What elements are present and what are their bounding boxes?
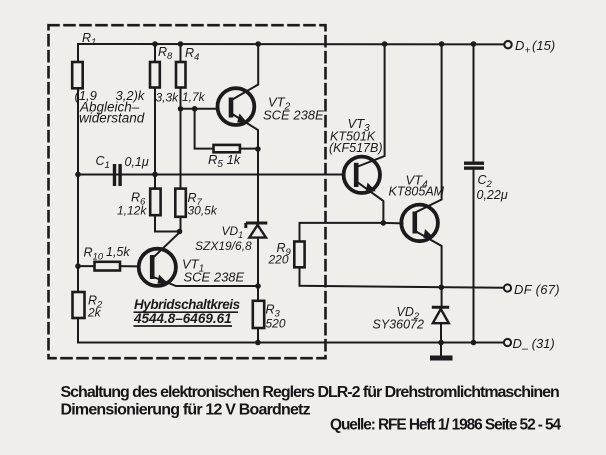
svg-text:1,7k: 1,7k <box>182 90 206 104</box>
resistor R1 <box>72 31 146 126</box>
svg-text:KT805AM: KT805AM <box>389 185 445 199</box>
svg-text:1,5k: 1,5k <box>106 245 130 259</box>
svg-text:SY36072: SY36072 <box>373 318 424 332</box>
svg-text:(KF517B): (KF517B) <box>329 141 383 155</box>
zener diode VD1 <box>195 223 267 253</box>
wire: left rail (R1/R2 column) <box>77 44 79 343</box>
svg-text:0,22μ: 0,22μ <box>477 188 508 202</box>
junction: R8/R6/C1 node <box>152 172 158 178</box>
svg-text:4544.8–6469.61: 4544.8–6469.61 <box>133 311 232 326</box>
svg-text:SCE 238E: SCE 238E <box>263 108 324 123</box>
wire: VT2 emitter down through R5 node to VD1 <box>232 114 259 224</box>
resistor R7 <box>175 189 218 218</box>
wire: R4/R7 column <box>180 44 182 232</box>
svg-text:Schaltung des elektronischen R: Schaltung des elektronischen Reglers DLR… <box>61 384 560 401</box>
resistor R5 <box>208 145 242 170</box>
wire: VD1 bottom to VT1 emitter node <box>257 238 259 343</box>
junction: C2 bottom on D- rail <box>471 340 477 346</box>
svg-text:Quelle: RFE Heft 1/ 1986 Seite: Quelle: RFE Heft 1/ 1986 Seite 52 - 54 <box>330 416 562 433</box>
wire: VT1 collector diagonal <box>152 232 180 259</box>
terminal D+ (15) <box>504 38 555 57</box>
svg-text:2k: 2k <box>87 306 102 320</box>
junction: R10 on left rail <box>75 263 81 269</box>
junction: R6/R7/VT1 collector node <box>177 229 183 235</box>
svg-text:520: 520 <box>266 317 286 331</box>
svg-text:SCE 238E: SCE 238E <box>184 270 245 285</box>
junction: R5 left on VT2 base <box>192 106 198 112</box>
junction: C2 top on D+ rail <box>471 41 477 47</box>
resistor R4 <box>176 46 206 104</box>
wire: feedback line C1 node to VT3 base <box>78 174 343 176</box>
transistor VT3 <box>329 116 383 193</box>
junction: VT3 collector on D+ rail <box>382 41 388 47</box>
transistor VT4 <box>389 173 445 242</box>
transistor VT2 <box>218 88 325 125</box>
diode VD2 <box>373 305 450 332</box>
wire: C2 column <box>473 44 475 162</box>
svg-text:Dimensionierung für 12 V Board: Dimensionierung für 12 V Boardnetz <box>61 401 311 418</box>
wire: R5 left lead from base node <box>195 109 214 149</box>
svg-text:Hybridschaltkreis: Hybridschaltkreis <box>134 297 241 312</box>
svg-text:DF (67): DF (67) <box>514 282 560 297</box>
wire: VT3 collector to top rail <box>357 44 385 167</box>
wire: R9 top lead to VT4 base node <box>300 223 384 242</box>
junction: R5 right / VT2 emitter node <box>255 146 261 152</box>
wire: R9 bottom lead to DF line <box>300 267 504 288</box>
junction: VT4 emitter / VD2 on DF line <box>439 285 445 291</box>
terminal D- (31) <box>504 336 555 355</box>
ground <box>430 356 453 361</box>
resistor R9 <box>268 241 305 267</box>
wire: VT2 base wire <box>181 108 218 110</box>
wire: VT2 collector to top rail <box>232 44 259 100</box>
resistor R3 <box>253 301 286 331</box>
ground stem <box>440 343 442 356</box>
capacitor C1 <box>96 154 149 186</box>
wire: VD2 bottom to D- rail <box>440 324 442 343</box>
wire: VT4 emitter down to DF node <box>415 231 441 307</box>
hybrid module dashed boundary box <box>49 25 326 358</box>
svg-text:widerstand: widerstand <box>79 111 145 126</box>
svg-text:SZX19/6,8: SZX19/6,8 <box>195 239 252 253</box>
wire: R8/R6 column <box>154 44 156 216</box>
transistor VT1 <box>139 249 245 286</box>
junction: R4 top on D+ rail <box>178 41 184 47</box>
junction: VT1 emitter / VD1 / R3 node <box>255 283 261 289</box>
junction: R8 top on D+ rail <box>152 41 158 47</box>
wire: bottom rail to D- <box>78 342 504 344</box>
svg-text:30,5k: 30,5k <box>188 204 218 218</box>
wire: top supply rail to D+ <box>79 43 504 45</box>
resistor R10 <box>84 245 131 271</box>
terminal DF (67) <box>504 282 560 297</box>
junction: R4 bottom on VT2 base <box>178 106 184 112</box>
wire: VT3 emitter to VT4 base node <box>357 182 384 223</box>
junction: VD2 / ground on D- rail <box>438 340 444 346</box>
wire: R5 right lead to emitter column <box>240 148 258 150</box>
svg-text:0,1μ: 0,1μ <box>125 155 149 169</box>
svg-text:1,12k: 1,12k <box>117 204 147 218</box>
resistor R8 <box>150 45 179 105</box>
svg-text:220: 220 <box>268 253 289 267</box>
resistor R6 <box>117 189 161 218</box>
junction: R3 bottom on D- rail <box>255 340 261 346</box>
junction: VT3 emitter / VT4 base / R9 node <box>381 220 387 226</box>
hybrid circuit part number <box>133 297 241 326</box>
junction: VT2 collector on D+ rail <box>255 41 261 47</box>
capacitor C2 <box>464 162 508 203</box>
junction: C1 to left rail <box>75 172 81 178</box>
wire: VT4 base lead <box>383 222 402 224</box>
wire: R6 bottom to VT1 collector node <box>155 216 181 232</box>
wire: VT4 collector from top rail <box>415 44 441 213</box>
resistor R2 <box>73 292 104 320</box>
junction: VT4 collector on D+ rail <box>439 41 445 47</box>
wire: VT1 emitter horizontal <box>152 277 258 287</box>
wire: R10 leads <box>78 265 95 267</box>
svg-text:3,3k: 3,3k <box>156 91 180 105</box>
